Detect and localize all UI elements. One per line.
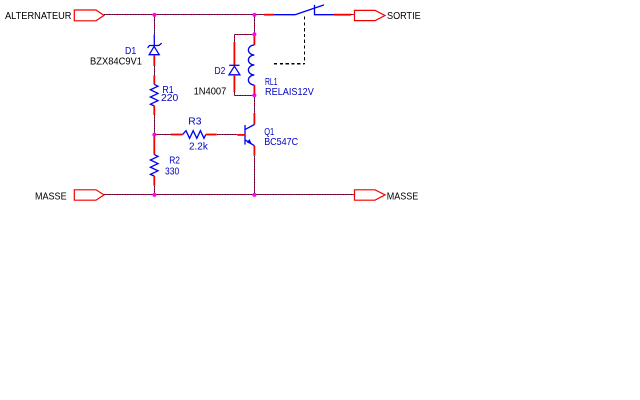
relay RL1 coil bbox=[248, 34, 254, 95]
junction node C relay top bbox=[252, 32, 256, 36]
svg-text:ALTERNATEUR: ALTERNATEUR bbox=[5, 11, 72, 22]
junction node bottom rail x254 bbox=[252, 193, 256, 197]
diode D2 bbox=[229, 42, 240, 92]
wire switch to SORTIE port bbox=[351, 14, 355, 16]
transistor Q1 bbox=[237, 113, 254, 156]
wire top rail down to relay node C bbox=[254, 15, 256, 35]
svg-text:R2: R2 bbox=[169, 156, 180, 167]
resistor R1 bbox=[150, 75, 158, 115]
svg-text:BC547C: BC547C bbox=[264, 137, 298, 148]
wire Q1 emitter to bottom rail bbox=[254, 156, 256, 195]
svg-text:SORTIE: SORTIE bbox=[387, 11, 421, 22]
resistor R2 bbox=[150, 135, 158, 186]
junction node at top rail x154 bbox=[152, 13, 156, 17]
svg-text:2.2k: 2.2k bbox=[189, 142, 209, 153]
wire bottom rail left segment bbox=[104, 194, 155, 196]
wire R1 to node B bbox=[154, 115, 156, 135]
wire bottom rail right segment bbox=[255, 194, 355, 196]
svg-text:330: 330 bbox=[165, 167, 180, 178]
svg-text:D2: D2 bbox=[215, 66, 226, 77]
junction node B divider tap bbox=[152, 133, 156, 137]
port ALTERNATEUR symbol bbox=[74, 10, 104, 21]
zener diode D1 bbox=[148, 34, 162, 66]
junction node bottom rail x154 bbox=[152, 193, 156, 197]
port SORTIE symbol bbox=[355, 10, 386, 20]
wire R3 to Q1 base bbox=[217, 134, 237, 136]
wire node A down to D1 bbox=[154, 15, 156, 35]
wire D2 bottom vertical bbox=[234, 92, 236, 96]
svg-text:MASSE: MASSE bbox=[387, 191, 419, 202]
port MASSE right symbol bbox=[355, 190, 386, 200]
svg-text:R3: R3 bbox=[188, 117, 202, 128]
port MASSE left symbol bbox=[74, 190, 104, 200]
wire D2 top vertical bbox=[234, 35, 236, 43]
relay RL1 switch contact bbox=[264, 5, 351, 15]
wire bottom rail middle segment bbox=[155, 194, 255, 196]
wire relay node D to Q1 collector bbox=[254, 95, 256, 113]
wire top rail to switch bbox=[255, 14, 265, 16]
wire D2 bottom to node D bbox=[235, 95, 255, 97]
wire D1 to R1 bbox=[154, 66, 156, 75]
resistor R3 bbox=[171, 131, 217, 139]
relay RL1 mechanical link (dashed) bbox=[274, 17, 305, 64]
svg-text:Q1: Q1 bbox=[264, 127, 274, 138]
wire R2 to bottom rail bbox=[154, 186, 156, 195]
svg-text:D1: D1 bbox=[125, 46, 137, 57]
wire top rail left segment bbox=[104, 14, 155, 16]
junction node D relay bottom bbox=[252, 93, 256, 97]
svg-text:BZX84C9V1: BZX84C9V1 bbox=[90, 57, 142, 68]
svg-text:220: 220 bbox=[161, 93, 179, 104]
junction node at top rail x254 bbox=[252, 13, 256, 17]
svg-text:MASSE: MASSE bbox=[35, 191, 67, 202]
svg-text:RELAIS12V: RELAIS12V bbox=[265, 87, 314, 98]
wire node C to D2 top bbox=[235, 34, 255, 36]
wire top rail middle segment bbox=[155, 14, 255, 16]
wire node B to R3 bbox=[155, 134, 171, 136]
svg-text:1N4007: 1N4007 bbox=[194, 87, 227, 98]
